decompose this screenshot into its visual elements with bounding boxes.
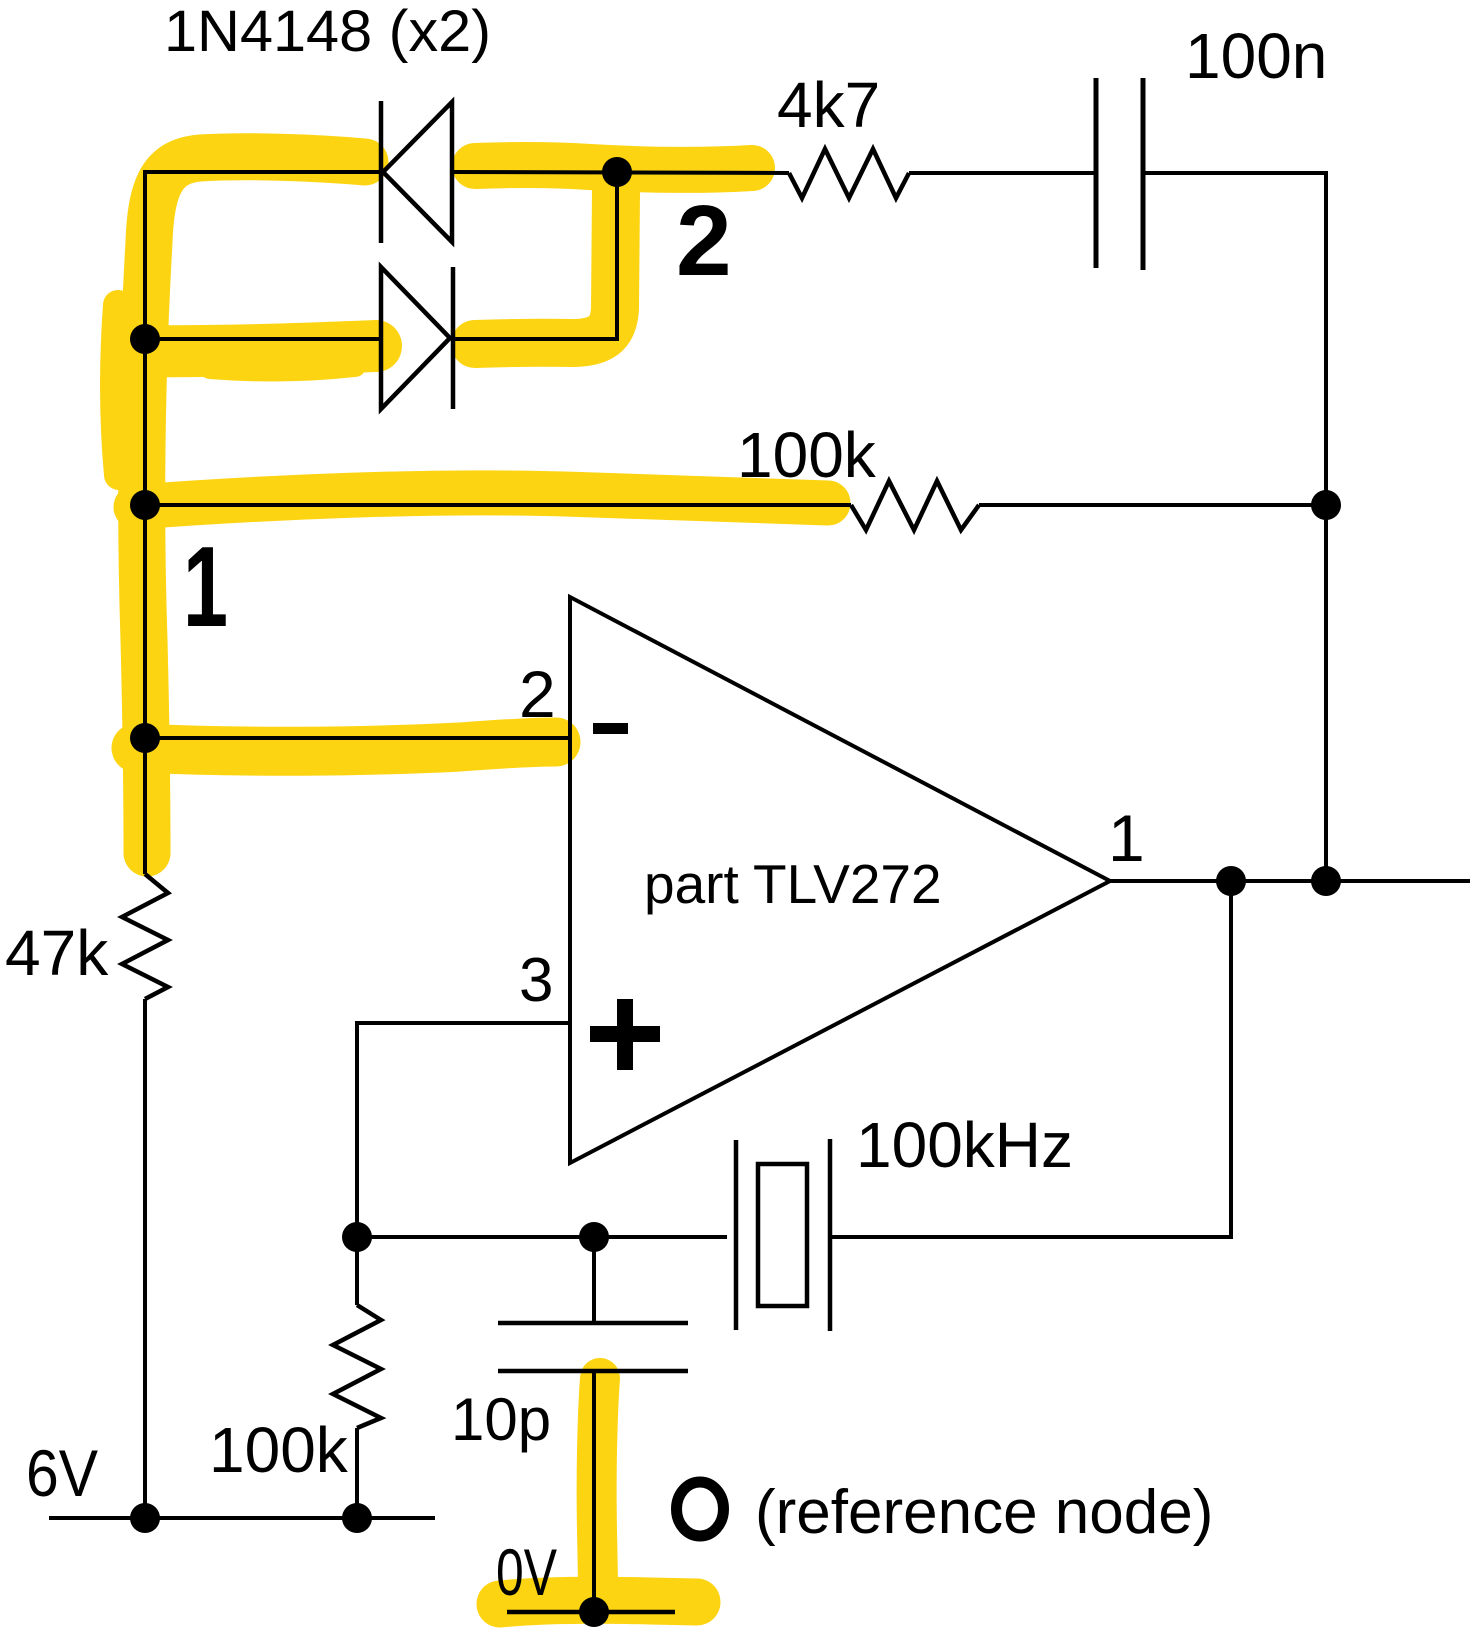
highlight net 1 pin2 row stroke — [136, 742, 556, 751]
svg-text:100k: 100k — [209, 1414, 349, 1486]
resistor 100k bias — [333, 1305, 381, 1428]
resistor 47k — [122, 874, 168, 999]
svg-text:1N4148 (x2): 1N4148 (x2) — [164, 0, 491, 64]
svg-text:100n: 100n — [1185, 20, 1327, 92]
junction net1 100k row — [130, 490, 160, 520]
highlight net 2 top wire stroke — [475, 165, 752, 170]
svg-text:10p: 10p — [451, 1386, 551, 1453]
capacitor 10p — [498, 1323, 688, 1371]
svg-text:2: 2 — [519, 657, 556, 731]
highlight net 2 lower diode stroke — [136, 346, 376, 351]
wire cap to right corner and down — [1143, 173, 1326, 881]
svg-text:1: 1 — [1108, 801, 1145, 875]
highlight net 0 ground bar stroke — [500, 1600, 697, 1604]
svg-text:100k: 100k — [737, 419, 877, 491]
wire 10p bottom lead to ground — [592, 1371, 596, 1612]
crystal 100kHz — [736, 1139, 830, 1331]
wire 100k bias bottom lead — [355, 1428, 359, 1518]
diode D1 1N4148 top — [381, 101, 452, 243]
highlight net 2 top wire left segment and net 1 vertical — [142, 157, 365, 853]
wire pin3 to corner — [357, 1023, 570, 1237]
diode D2 1N4148 bottom — [381, 267, 453, 409]
wire crystal to output vertical — [830, 881, 1231, 1237]
junction 6V 100k — [342, 1503, 372, 1533]
resistor 100k feedback — [851, 481, 979, 530]
junction net1 diode row — [130, 324, 160, 354]
wire inverting input pin2 — [145, 736, 570, 740]
wire 47k to 6V rail — [143, 999, 147, 1518]
svg-text:47k: 47k — [5, 917, 109, 989]
resistor 4k7 — [789, 149, 909, 198]
svg-text:(reference node): (reference node) — [755, 1478, 1213, 1547]
highlight net 1 100k row stroke — [136, 493, 828, 507]
wire 6V rail — [49, 1516, 435, 1520]
highlight net 1 vertical second pass — [115, 305, 119, 475]
wire top net2 left segment — [145, 170, 381, 174]
svg-text:3: 3 — [519, 946, 553, 1015]
highlight net 2 lower diode right segment — [475, 192, 616, 344]
svg-text:4k7: 4k7 — [777, 69, 880, 141]
wire 100k feedback right — [979, 503, 1326, 507]
junction feedback right — [1311, 490, 1341, 520]
wire lower diode left — [145, 337, 381, 341]
op-amp minus sign — [593, 723, 628, 734]
junction net1 pin2 row — [130, 723, 160, 753]
op-amp U1 TLV272 — [570, 597, 1110, 1163]
op-amp plus sign — [590, 999, 660, 1070]
ground symbol 0V bar — [507, 1610, 675, 1615]
node 0 label — [677, 1482, 724, 1536]
wire 100k bias top lead — [355, 1237, 359, 1305]
capacitor 100n — [1096, 78, 1143, 270]
junction node0 10p — [579, 1222, 609, 1252]
wire 10p top lead — [592, 1237, 596, 1323]
wire op-amp output — [1110, 879, 1470, 883]
svg-text:0V: 0V — [496, 1535, 557, 1609]
svg-text:2: 2 — [676, 185, 732, 297]
junction node 2 top — [602, 157, 632, 187]
junction 6V 47k — [130, 1503, 160, 1533]
wire left vertical net1 — [143, 170, 147, 874]
wire top net2 diode to resistor — [452, 172, 789, 173]
svg-text:6V: 6V — [26, 1436, 98, 1510]
wire node0 row to crystal — [357, 1235, 727, 1239]
svg-text:100kHz: 100kHz — [856, 1109, 1073, 1181]
ground junction — [579, 1597, 609, 1627]
junction output crystal — [1216, 866, 1246, 896]
svg-text:part TLV272: part TLV272 — [644, 853, 942, 915]
junction output feedback — [1311, 866, 1341, 896]
highlight net 0 ground vertical stroke — [597, 1378, 600, 1582]
wire 100k feedback left — [145, 503, 851, 507]
svg-text:1: 1 — [183, 524, 228, 651]
highlight net 2 lower diode underswash — [210, 366, 355, 370]
junction node0 left — [342, 1222, 372, 1252]
wire lower diode right up to node 2 — [453, 172, 617, 339]
wire resistor to cap — [909, 171, 1096, 175]
